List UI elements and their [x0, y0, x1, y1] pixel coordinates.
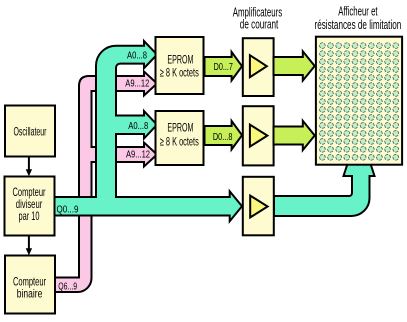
block display (afficheur) [316, 37, 402, 165]
svg-text:Q6...9: Q6...9 [58, 280, 77, 292]
wire oscillator to divider [28, 157, 30, 170]
svg-text:D0...7: D0...7 [214, 61, 233, 73]
block EPROM U1 [156, 37, 204, 94]
block EPROM U2 [156, 111, 204, 165]
wire amp A1 output green arrow to display [274, 51, 315, 80]
bus D0...7 green arrow EPROM U1 to amp A1 [205, 52, 243, 81]
svg-text:≥ 8 K octets: ≥ 8 K octets [160, 66, 199, 80]
block Oscillateur [5, 106, 55, 157]
block Compteur binaire [5, 256, 55, 314]
svg-text:A0...8: A0...8 [127, 50, 147, 62]
svg-text:≥ 8 K octets: ≥ 8 K octets [160, 135, 199, 149]
wire amp A2 output green arrow to display [274, 121, 315, 150]
bus Q0...9 teal network (horizontal bus to amp, trunk + branches to EPROM A0...8 inputs) [54, 41, 242, 221]
svg-text:résistances de limitation: résistances de limitation [315, 17, 402, 32]
svg-text:EPROM: EPROM [167, 53, 193, 67]
wire amp3 output teal arrow (up into display) [274, 164, 375, 217]
bus D0...8 green arrow EPROM U2 to amp A2 [205, 121, 243, 149]
block Compteur diviseur par 10 [5, 177, 55, 236]
amplifier A1 triangle [250, 55, 267, 77]
amplifier A1 box [243, 38, 274, 96]
svg-text:Q0...9: Q0...9 [57, 204, 79, 216]
svg-text:A0...8: A0...8 [128, 120, 148, 132]
svg-text:binaire: binaire [17, 287, 43, 301]
svg-text:par 10: par 10 [19, 209, 40, 223]
bus Q6...9 pink network (trunk + branches to EPROM A9...12 inputs) [55, 72, 157, 293]
svg-text:de courant: de courant [240, 17, 279, 32]
wire divider to binary counter [28, 236, 30, 249]
amplifier A3 box [243, 177, 274, 236]
svg-text:A9...12: A9...12 [125, 78, 149, 90]
amplifier A2 box [243, 106, 274, 165]
amplifier A3 triangle [250, 196, 267, 218]
svg-text:EPROM: EPROM [167, 121, 193, 135]
svg-text:D0...8: D0...8 [213, 131, 233, 143]
svg-text:A9...12: A9...12 [126, 148, 150, 160]
svg-text:Oscillateur: Oscillateur [14, 125, 47, 139]
amplifier A2 triangle [250, 125, 268, 147]
display LED matrix 10x15 [320, 43, 399, 160]
